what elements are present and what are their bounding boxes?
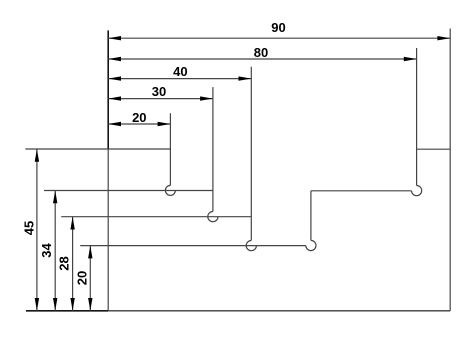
arrow dim90 right	[437, 36, 450, 40]
dim line 40	[108, 78, 251, 80]
extension for dim 45 + top-left surface	[25, 148, 170, 150]
part bottom edge	[108, 310, 450, 312]
extension for dim 34 + step surface y=190	[44, 190, 213, 192]
extension line for dim 40 + wall at x=251	[250, 67, 252, 241]
svg-text:34: 34	[39, 243, 54, 258]
undercut arc at corner (212.9,216.6)	[208, 212, 218, 222]
dim line 28 (vertical)	[72, 217, 74, 311]
part left edge (x=108)	[107, 149, 109, 311]
dim line 80	[108, 58, 416, 60]
top-right surface	[417, 148, 451, 150]
extension line + part right edge (x=450)	[449, 29, 451, 311]
arrow dim20 up	[88, 246, 92, 259]
svg-text:20: 20	[132, 110, 146, 125]
extension for dim 20 + valley floor y=246	[80, 245, 306, 247]
arrow dim80 left	[108, 57, 121, 61]
arrow dim30 right	[200, 96, 213, 100]
arrow dim40 right	[239, 76, 252, 80]
extension line for dim 80 + wall at x=417	[416, 48, 418, 186]
arrow dim20 down	[88, 298, 92, 311]
extension line for dim 30 + wall at x=213	[212, 87, 214, 211]
svg-text:40: 40	[173, 64, 187, 79]
svg-text:30: 30	[152, 84, 166, 99]
arrow dim90 left	[108, 36, 121, 40]
extension line stack for top dims (x=108, darker overlap)	[107, 30, 109, 149]
undercut arc at corner (170.4,190.4)	[165, 185, 175, 195]
dim line 30	[108, 98, 213, 100]
arrow dim34 up	[53, 191, 57, 204]
undercut arc at corner (416.6,190.6)	[412, 186, 422, 196]
bottom extension stack for left dims (darker overlap)	[26, 310, 108, 312]
svg-text:20: 20	[75, 271, 90, 285]
dim line 34 (vertical)	[54, 191, 56, 311]
arrow dim34 down	[53, 298, 57, 311]
svg-text:80: 80	[254, 45, 268, 60]
undercut arc at corner (251.3,245.6)	[246, 241, 256, 251]
svg-text:45: 45	[22, 221, 37, 235]
arrow dim30 left	[108, 96, 121, 100]
valley wall up at x=311	[310, 191, 312, 241]
upper valley surface y=191	[311, 190, 412, 192]
arrow dim45 down	[35, 298, 39, 311]
undercut arc at corner (310.9,245.5)	[306, 240, 316, 250]
extension for dim 28 + step surface y=217	[61, 216, 251, 218]
dim line 90	[108, 37, 450, 39]
dim line 45 (vertical)	[36, 149, 38, 311]
extension line for dim 20 + wall at x=170	[169, 113, 171, 185]
arrow dim20top right	[158, 122, 171, 126]
arrow dim40 left	[108, 76, 121, 80]
svg-text:90: 90	[271, 20, 285, 35]
arrow dim45 up	[35, 149, 39, 162]
arrow dim28 up	[70, 217, 74, 230]
arrow dim20top left	[108, 122, 121, 126]
dim line 20 (top)	[108, 123, 170, 125]
dim line 20 (vertical left)	[89, 246, 91, 311]
arrow dim80 right	[404, 57, 417, 61]
arrow dim28 down	[70, 298, 74, 311]
svg-text:28: 28	[57, 256, 72, 270]
